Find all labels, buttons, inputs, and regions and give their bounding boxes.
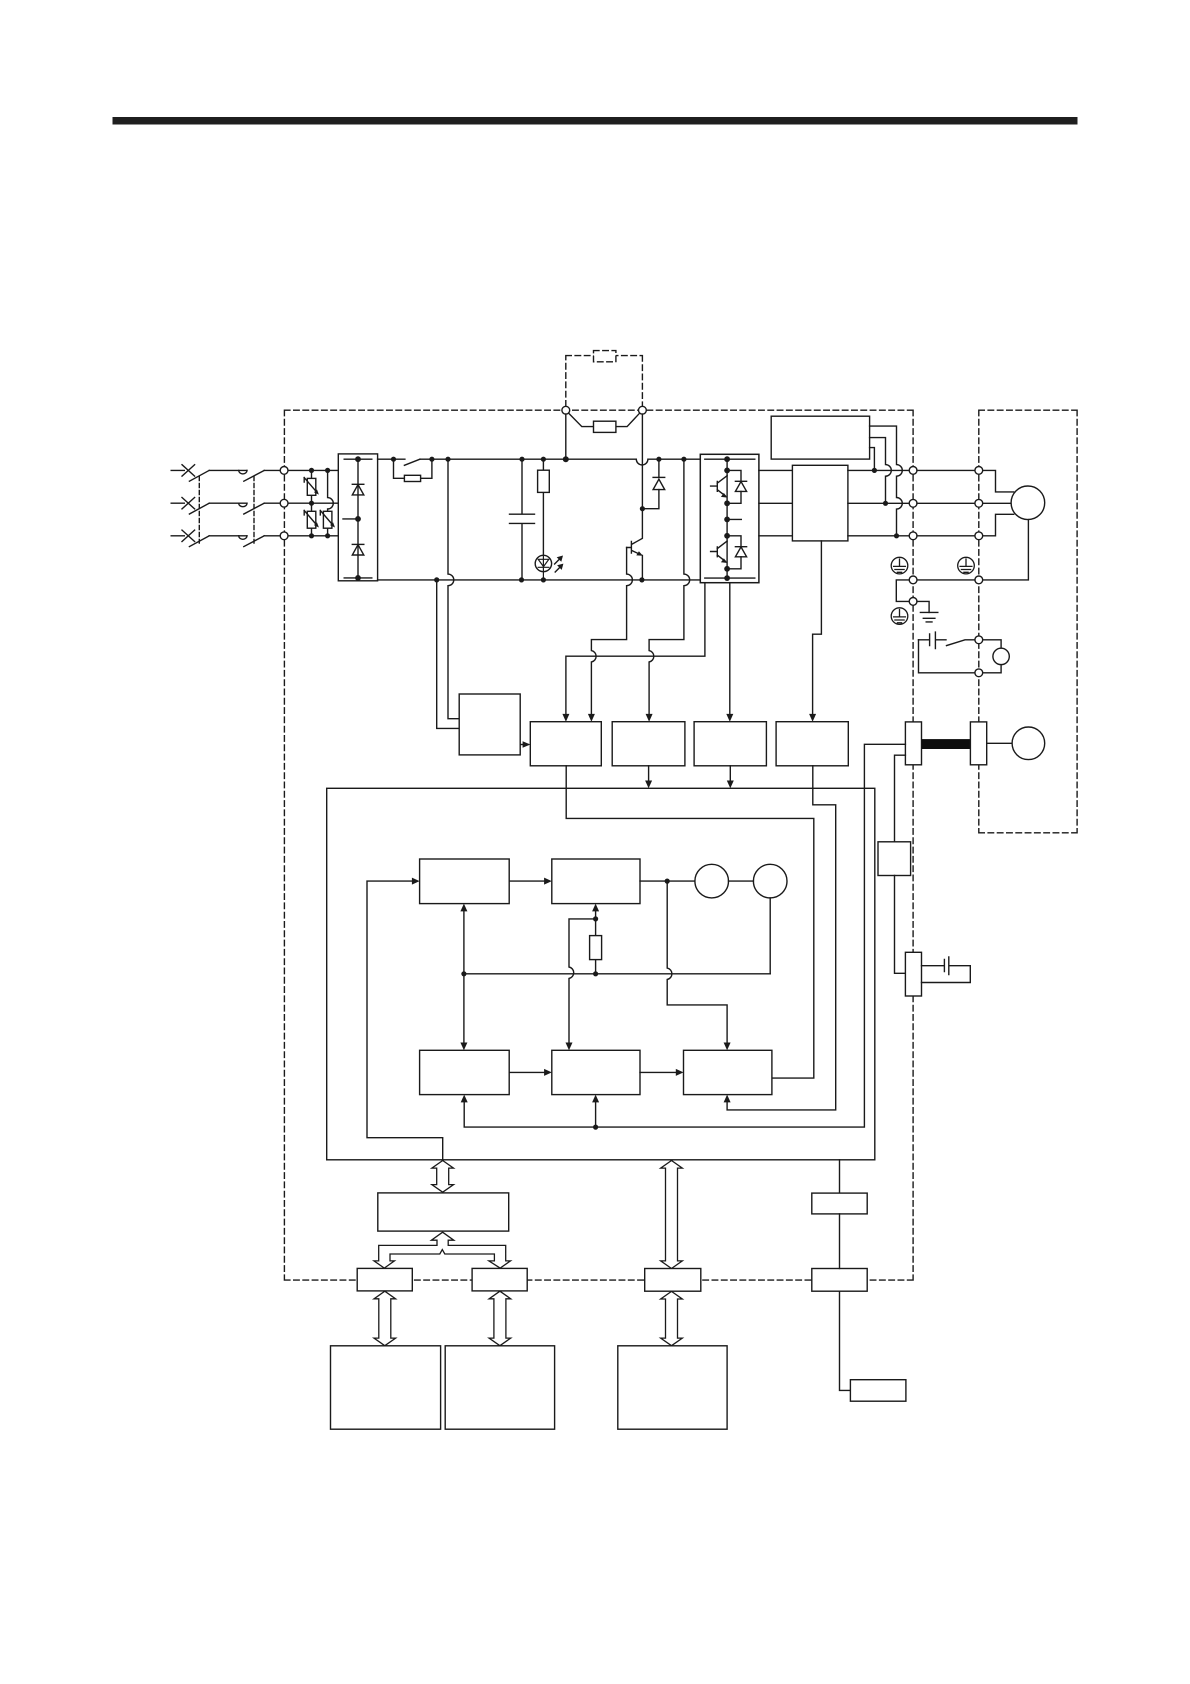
encoder cable [922, 739, 971, 749]
battery terminal 2 [975, 669, 983, 677]
command wire from interface [367, 878, 443, 1160]
upper left control box [420, 859, 510, 904]
drive box B [612, 722, 685, 766]
charge lamp LED [535, 555, 563, 580]
MC pole 1 [244, 470, 264, 481]
DB junction dots [872, 468, 877, 473]
NFB pole 2 [189, 503, 247, 514]
varistor V3 R-T wire with hop over phase S [320, 470, 335, 535]
motor V lead [983, 502, 1011, 504]
hollow arrow control-CN3 [661, 1161, 683, 1269]
wire V amp-motor [917, 502, 975, 504]
servo amplifier enclosure dashed box [284, 410, 913, 1280]
encoder connector motor side [970, 722, 986, 765]
phase R supply mark [182, 465, 195, 476]
terminal L2 [280, 499, 288, 507]
regen base wire with hop over N bus [591, 548, 632, 718]
terminal W [909, 532, 917, 540]
inverter node dots [724, 456, 730, 462]
P bus node dots [391, 457, 396, 462]
terminal P [562, 406, 570, 414]
wire C terminal to regen transistor [641, 414, 643, 509]
encoder connector amp side [905, 722, 921, 765]
arrow LM to LR [640, 1069, 684, 1076]
protective earth symbol 2 [958, 557, 975, 574]
phase T input wire [171, 535, 338, 537]
motor earth wire [983, 520, 1029, 580]
battery loop wire [919, 640, 975, 673]
wire P terminal to bus [565, 414, 567, 459]
regenerative option resistor dashed box [594, 351, 616, 362]
encoder supply wires [983, 640, 1001, 673]
regen freewheel diode [642, 459, 664, 509]
terminal C [639, 406, 647, 414]
motor W lead [983, 514, 1014, 536]
wire dot to LR with hop [667, 881, 730, 1050]
wire U to terminal [848, 469, 909, 471]
charge lamp resistor [538, 459, 550, 557]
battery MR-BAT [922, 957, 971, 983]
hollow splitter interface to CN1A CN1B [374, 1232, 511, 1268]
wire resistor node to LM with hop [566, 919, 596, 1050]
motor terminal PE [975, 576, 983, 584]
NFB mechanical link dashed line [198, 477, 200, 544]
terminal U [909, 467, 917, 475]
voltage detect N sense wire [437, 580, 460, 729]
feedback resistor [590, 919, 602, 974]
smoothing capacitor [510, 459, 535, 580]
amp terminal PE2 [909, 598, 917, 606]
wire UM to circles [640, 880, 695, 882]
battery terminal 1 [975, 636, 983, 644]
drive A loop wire [566, 766, 814, 1078]
arrow resistor to UM [592, 904, 599, 919]
regenerative option dashed box [566, 356, 643, 407]
P sample wire with hops [649, 459, 690, 717]
external box 2 [445, 1346, 554, 1429]
PE1 to PE2 wire [896, 580, 909, 602]
earth symbol [920, 612, 937, 622]
current detector box [792, 465, 848, 541]
wire option box to battery connector [895, 876, 906, 974]
diode bridge rectifier [338, 454, 377, 581]
DB wire to U [870, 448, 875, 471]
internal regenerative resistor [569, 413, 640, 432]
current sample wire to amp [813, 541, 822, 718]
servo motor circle [1011, 486, 1045, 520]
P bus wire with hop over regen C line [378, 459, 701, 465]
encoder lower wire to option box [895, 755, 906, 842]
header rule [113, 117, 1078, 125]
motor terminal U [975, 467, 983, 475]
MC pole 2 [244, 503, 264, 514]
hollow arrow CN1B-boxB [489, 1291, 511, 1346]
wire circle2 to feedback [769, 898, 771, 974]
encoder option box [878, 842, 911, 876]
terminal V [909, 499, 917, 507]
wire inverter V output [759, 502, 793, 504]
inverter lower freewheel diode [727, 536, 747, 569]
CN2 wire to battery unit [840, 1291, 851, 1390]
motor U lead [983, 470, 1014, 492]
arrow detect to driveA [520, 741, 530, 748]
gate wire inverter left [566, 583, 705, 718]
phase S supply mark [182, 498, 195, 509]
hollow arrow control-interface [432, 1161, 454, 1193]
encoder feedback wire [461, 744, 906, 1127]
encoder battery [919, 632, 947, 648]
external box 1 [331, 1346, 441, 1429]
amp terminal PE1 [909, 576, 917, 584]
MC mechanical link dashed line [253, 477, 255, 544]
N bus node dots [434, 577, 439, 582]
drive box C [694, 722, 766, 766]
voltage detection box [459, 694, 520, 755]
inrush relay contact [404, 459, 420, 465]
PE2 earth wire [917, 601, 929, 612]
vertical UL-LL both arrows [460, 904, 467, 1051]
CN2 wire from control [839, 1160, 841, 1193]
varistor V2 S-T [304, 503, 319, 536]
inverter upper IGBT [711, 476, 728, 498]
encoder circle [1012, 727, 1045, 760]
varistor V1 R-S [304, 470, 319, 503]
battery switch [947, 640, 975, 646]
NFB pole 3 [189, 536, 247, 547]
bridge node dots [355, 456, 361, 462]
CN2 wire to connector [839, 1214, 841, 1269]
drive box D [776, 722, 848, 766]
feedback horizontal wire [464, 973, 770, 975]
motor terminal V [975, 499, 983, 507]
wire inverter W output [759, 535, 793, 537]
wire inverter U output [759, 469, 793, 471]
control block [327, 788, 875, 1160]
control interior dots [665, 879, 670, 884]
feedback branch to LM [592, 1095, 599, 1128]
wire PE amp-motor [917, 579, 975, 581]
drive box A [530, 722, 601, 766]
lower mid control box [552, 1050, 640, 1094]
inverter lower IGBT [711, 541, 728, 563]
connector CN2 [812, 1269, 867, 1292]
wire between circles [729, 880, 754, 882]
gate wire inverter right [729, 583, 731, 718]
lower right control box [684, 1050, 772, 1094]
hollow arrow CN1A-boxA [374, 1291, 396, 1346]
drive D loop wire [724, 766, 836, 1110]
NFB pole 1 [189, 470, 247, 481]
external box 3 [618, 1346, 727, 1429]
wire W to terminal [848, 535, 909, 537]
phase R input wire [171, 469, 338, 471]
inverter upper freewheel diode [727, 470, 747, 503]
DASHED-LAYER [284, 351, 1077, 1281]
motor terminal W [975, 532, 983, 540]
phase S input wire [171, 502, 338, 504]
DB wire to V with hop [870, 438, 892, 504]
drive B output arrow [645, 766, 652, 789]
voltage detect P sense wire with hop over N bus [448, 459, 459, 719]
lower left control box [420, 1050, 510, 1094]
CN2 filter box [812, 1193, 867, 1214]
arrowheads into drive row [562, 714, 569, 722]
battery connector [905, 952, 921, 996]
encoder backup circle [993, 648, 1009, 664]
upper mid control box [552, 859, 640, 904]
dynamic brake box [771, 416, 869, 459]
control circle 1 [695, 864, 729, 898]
terminal L3 [280, 532, 288, 540]
arrow LL to LM [509, 1069, 552, 1076]
regen transistor [627, 509, 643, 580]
connector CN1B [472, 1268, 527, 1291]
N bus wire [378, 579, 701, 581]
DB wire to W with hops [870, 426, 903, 536]
motor enclosure dashed box [979, 410, 1077, 833]
wire W amp-motor [917, 535, 975, 537]
hollow arrow CN3-boxC [661, 1291, 683, 1345]
terminal L1 [280, 467, 288, 475]
inrush resistor bypass [394, 459, 432, 481]
connector CN3 [645, 1269, 701, 1292]
connector CN1A [357, 1268, 412, 1291]
varistor node dots [309, 468, 314, 473]
wire U amp-motor [917, 469, 975, 471]
battery unit box [850, 1380, 906, 1402]
MC pole 3 [244, 536, 264, 547]
protective earth symbol 3 [891, 608, 908, 625]
wire V to terminal [848, 502, 909, 504]
phase T supply mark [182, 530, 195, 541]
interface box [378, 1193, 509, 1231]
inverter module box [700, 454, 759, 582]
control circle 2 [753, 864, 787, 898]
arrow UL to UM [509, 878, 552, 885]
protective earth symbol 1 [891, 557, 908, 574]
wire connector to encoder [987, 742, 1012, 744]
drive C output arrow [727, 766, 734, 789]
